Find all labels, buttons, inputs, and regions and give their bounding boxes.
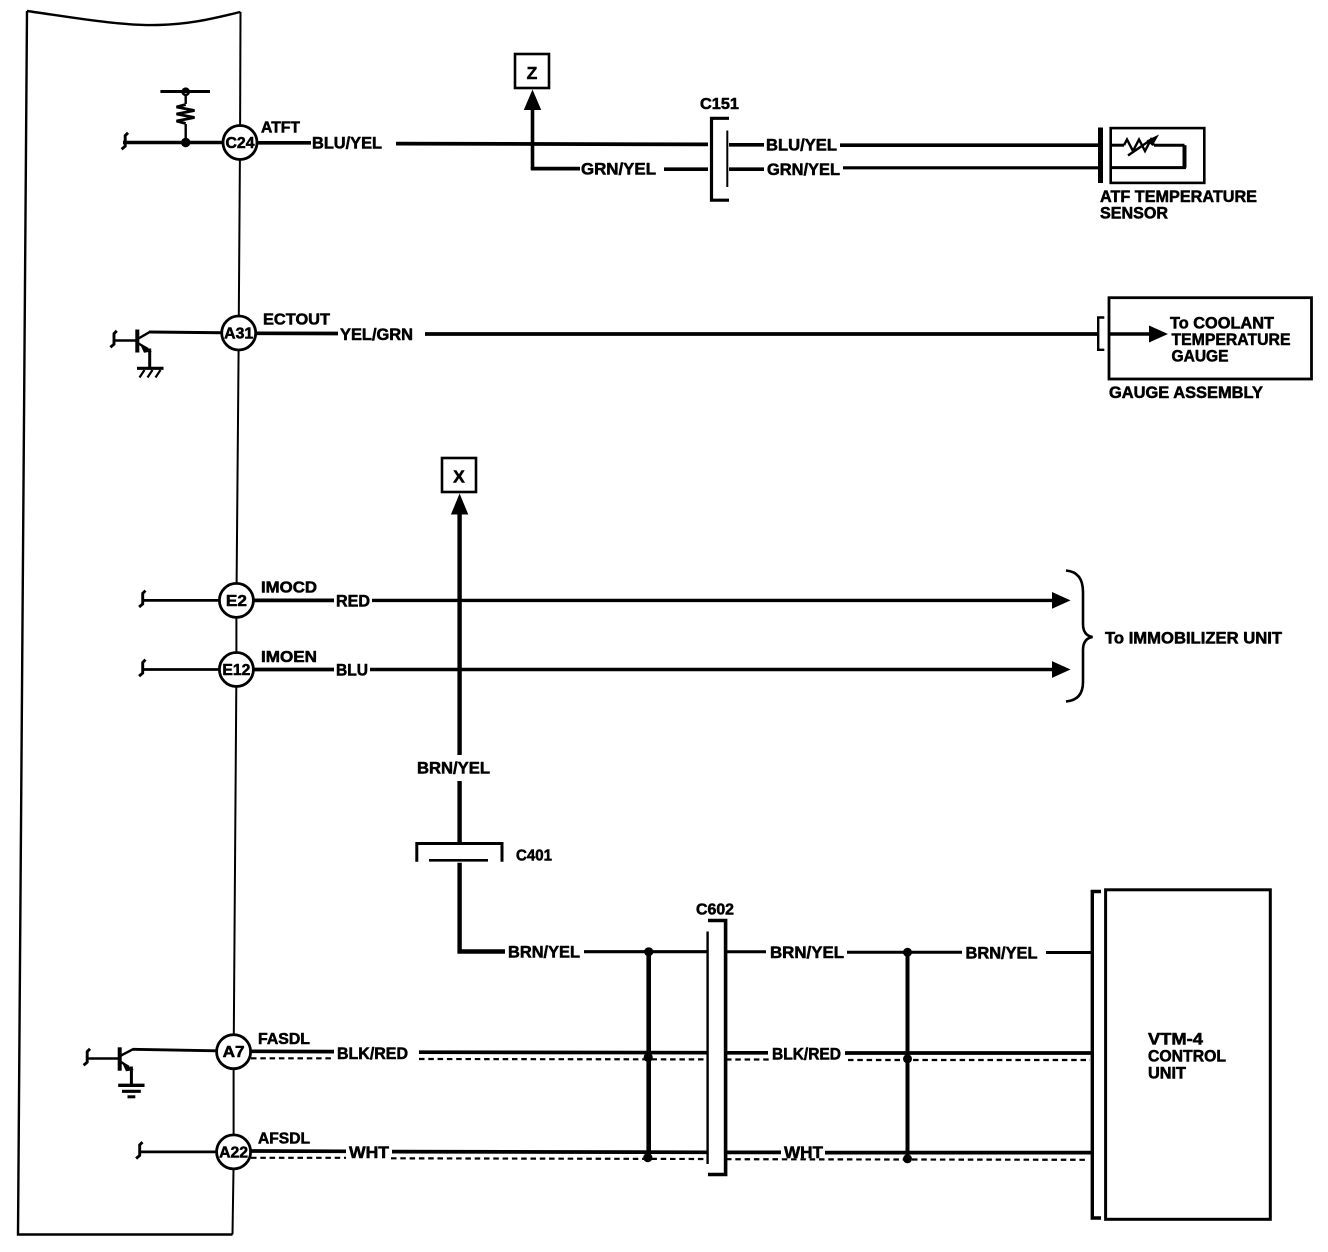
connector C401 xyxy=(417,844,552,865)
svg-text:BRN/YEL: BRN/YEL xyxy=(966,945,1038,963)
pin C24 (ATFT) xyxy=(223,126,257,160)
arrow to coolant temperature gauge xyxy=(1110,326,1168,343)
ground (chassis, at A31 transistor) xyxy=(137,368,164,377)
wire YEL/GRN to gauge assembly xyxy=(425,332,1097,336)
svg-text:ATF TEMPERATURE: ATF TEMPERATURE xyxy=(1100,188,1257,206)
transistor Q (driver at A7) xyxy=(87,1047,134,1085)
wire BRN/YEL junction to label 4 xyxy=(908,951,963,954)
svg-text:GRN/YEL: GRN/YEL xyxy=(767,161,840,179)
connector C151 xyxy=(700,96,739,200)
svg-text:To IMMOBILIZER UNIT: To IMMOBILIZER UNIT xyxy=(1105,630,1282,648)
svg-text:To COOLANT: To COOLANT xyxy=(1170,315,1274,333)
svg-text:GAUGE ASSEMBLY: GAUGE ASSEMBLY xyxy=(1109,384,1263,402)
shield dashed BLK/RED to C602 xyxy=(419,1058,707,1061)
ground (earth, at A7 transistor) xyxy=(118,1085,144,1097)
svg-text:BRN/YEL: BRN/YEL xyxy=(417,760,490,778)
connector bracket at VTM-4 unit xyxy=(1092,892,1101,1219)
svg-text:AFSDL: AFSDL xyxy=(258,1130,310,1147)
pin E12 (IMOEN) xyxy=(219,653,253,687)
wire BRN/YEL to VTM-4 unit xyxy=(1046,951,1092,954)
svg-text:BLU/YEL: BLU/YEL xyxy=(312,135,382,153)
wire BLU/YEL label to connector C151 xyxy=(396,142,708,146)
svg-text:A22: A22 xyxy=(219,1144,248,1161)
wire stub hook row E12 xyxy=(139,660,145,676)
wire BLK/RED to VTM-4 unit xyxy=(845,1051,1092,1055)
wire IMOEN hook to pin E12 xyxy=(143,668,219,671)
wire WHT label to C602 xyxy=(392,1150,707,1154)
svg-text:RED: RED xyxy=(336,593,370,611)
svg-text:C24: C24 xyxy=(226,135,255,152)
wire WHT pin A22 to label xyxy=(251,1149,346,1153)
label To COOLANT TEMPERATURE GAUGE xyxy=(1170,315,1291,366)
svg-text:A7: A7 xyxy=(223,1044,245,1061)
vertical tie line right (shield drain) xyxy=(906,952,910,1160)
wire RED pin E2 to label xyxy=(254,599,334,603)
wire BRN/YEL vertical to connector C401 xyxy=(457,781,461,844)
svg-text:C151: C151 xyxy=(700,96,739,113)
ATF temperature sensor terminal bar xyxy=(1098,128,1103,184)
thermistor element inside ATF sensor xyxy=(1111,135,1186,168)
ATF temperature sensor box xyxy=(1111,128,1205,183)
wire BLU pin E12 to label xyxy=(254,668,334,672)
svg-text:X: X xyxy=(453,467,465,487)
junction dot BLK/RED left xyxy=(644,1053,653,1062)
resistor (pull-up at C24) xyxy=(177,95,195,142)
svg-text:E2: E2 xyxy=(226,593,247,610)
arrow up into X xyxy=(451,494,468,756)
ECM/PCM module box (left, torn wavy top edge) xyxy=(18,11,241,1235)
wire GRN/YEL label to connector C151 xyxy=(664,167,708,171)
wire IMOCD hook to pin E2 xyxy=(143,599,219,602)
pin E2 (IMOCD) xyxy=(219,583,253,617)
wire BRN/YEL below C401, corner to horizontal xyxy=(460,863,505,952)
wire BLU/YEL after C151 xyxy=(729,143,764,147)
svg-text:VTM-4: VTM-4 xyxy=(1148,1030,1204,1048)
junction dot WHT right xyxy=(903,1154,912,1163)
svg-text:TEMPERATURE: TEMPERATURE xyxy=(1172,331,1291,349)
svg-text:BRN/YEL: BRN/YEL xyxy=(508,944,580,962)
wire BRN/YEL junction to C602 xyxy=(649,950,707,953)
connector bracket at gauge assembly xyxy=(1098,318,1104,350)
wire BLU to immobilizer arrow xyxy=(370,661,1071,678)
wire stub hook row A7 (transistor base) xyxy=(84,1049,90,1065)
junction dot BRN/YEL left xyxy=(644,947,653,956)
wire BLK/RED label to C602 xyxy=(419,1050,707,1054)
wire collector to pin A7 xyxy=(133,1049,216,1051)
shield dashed BLK/RED to VTM-4 unit xyxy=(848,1059,1090,1061)
wire BLK/RED pin A7 to label xyxy=(251,1049,334,1053)
svg-text:Z: Z xyxy=(527,63,538,83)
svg-text:IMOCD: IMOCD xyxy=(261,580,317,597)
svg-text:GRN/YEL: GRN/YEL xyxy=(581,161,656,179)
brace to immobilizer unit xyxy=(1066,571,1093,702)
off-page connector X box xyxy=(442,458,476,492)
shield dashed BLK/RED left segment xyxy=(251,1057,331,1059)
vertical tie line left (shield drain) xyxy=(646,952,651,1158)
svg-text:BLK/RED: BLK/RED xyxy=(337,1045,408,1063)
junction dot BRN/YEL right xyxy=(903,948,912,957)
svg-text:BRN/YEL: BRN/YEL xyxy=(770,944,844,962)
arrow up into Z xyxy=(524,90,541,170)
wire GRN/YEL corner to label xyxy=(531,167,580,171)
svg-text:BLK/RED: BLK/RED xyxy=(772,1046,841,1064)
pin A7 (FASDL) xyxy=(217,1035,251,1069)
svg-text:E12: E12 xyxy=(222,662,250,679)
svg-text:WHT: WHT xyxy=(784,1144,823,1162)
wire WHT to VTM-4 unit xyxy=(825,1151,1092,1155)
wire AFSDL hook to pin A22 xyxy=(140,1151,217,1154)
pin A31 (ECTOUT) xyxy=(222,316,256,350)
junction dot BLK/RED right xyxy=(903,1054,912,1063)
svg-text:BLU: BLU xyxy=(336,662,368,680)
shield dashed BLK/RED after C602 xyxy=(726,1058,769,1060)
wire stub hook row A22 xyxy=(136,1142,142,1158)
shield dashed WHT left segment xyxy=(251,1157,346,1159)
label ATF TEMPERATURE SENSOR xyxy=(1100,188,1257,223)
svg-text:SENSOR: SENSOR xyxy=(1100,205,1168,223)
svg-text:FASDL: FASDL xyxy=(258,1031,310,1048)
wire BRN/YEL label to junction xyxy=(584,950,650,953)
gauge assembly box xyxy=(1109,298,1312,379)
pin A22 (AFSDL) xyxy=(217,1135,251,1169)
svg-text:ATFT: ATFT xyxy=(261,120,300,137)
svg-text:WHT: WHT xyxy=(349,1144,389,1162)
wire stub hook row 2 (transistor base) xyxy=(110,331,116,347)
VTM-4 control unit box xyxy=(1106,890,1271,1220)
wire BLK/RED after C602 xyxy=(726,1051,768,1055)
wire BLU/YEL pin C24 to label xyxy=(257,141,311,145)
wire collector to pin A31 xyxy=(149,331,222,335)
svg-text:ECTOUT: ECTOUT xyxy=(263,312,330,329)
connector C602 xyxy=(696,902,734,1175)
svg-text:A31: A31 xyxy=(224,326,253,343)
wire RED to immobilizer arrow xyxy=(372,592,1071,609)
svg-text:C602: C602 xyxy=(696,902,734,919)
svg-text:GAUGE: GAUGE xyxy=(1172,348,1229,366)
wire WHT after C602 xyxy=(726,1151,781,1155)
svg-text:UNIT: UNIT xyxy=(1148,1064,1186,1082)
junction dot WHT left xyxy=(643,1153,652,1162)
wire BLU/YEL to ATF sensor xyxy=(840,143,1098,147)
wire stub hook row 1 xyxy=(122,133,128,149)
wire BRN/YEL after C602 xyxy=(726,950,766,953)
wire ATFT from hook to pin C24 xyxy=(123,141,223,145)
svg-text:IMOEN: IMOEN xyxy=(261,649,317,666)
junction dot at resistor / ATFT wire xyxy=(181,138,190,147)
shield dashed WHT to C602 xyxy=(391,1157,707,1160)
power rail bar above pull-up resistor xyxy=(160,89,210,95)
wire YEL/GRN pin A31 to label xyxy=(256,331,338,335)
off-page connector Z box xyxy=(515,54,549,88)
wire GRN/YEL after C151 xyxy=(729,167,764,171)
shield dashed WHT after C602 xyxy=(726,1158,1086,1161)
transistor Q (driver at A31) xyxy=(115,330,152,369)
label VTM-4 CONTROL UNIT xyxy=(1148,1030,1226,1082)
svg-text:C401: C401 xyxy=(516,848,552,865)
wire BRN/YEL label to right junction xyxy=(847,951,909,954)
wire stub hook row E2 xyxy=(139,591,145,607)
svg-text:CONTROL: CONTROL xyxy=(1148,1047,1226,1065)
wire GRN/YEL to ATF sensor xyxy=(843,166,1098,169)
svg-text:BLU/YEL: BLU/YEL xyxy=(766,137,837,155)
wire ECM right edge (pin rail) xyxy=(233,12,241,1235)
svg-text:YEL/GRN: YEL/GRN xyxy=(340,326,413,344)
